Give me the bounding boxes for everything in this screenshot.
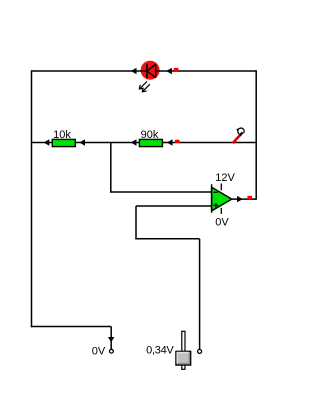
svg-text:12V: 12V	[215, 172, 235, 184]
terminal node (0,34V input)	[198, 349, 202, 353]
current arrow (down) above 0V terminal	[108, 337, 114, 342]
wire drop into input terminal	[199, 239, 201, 349]
wire op-amp output	[232, 198, 256, 200]
wire resistor row	[32, 142, 257, 144]
svg-text:90k: 90k	[141, 129, 159, 141]
op-amp U1 positive supply pin	[220, 184, 222, 191]
LED D1 body (red circle)	[141, 61, 160, 80]
current arrow right of R1	[79, 139, 85, 145]
wire junction drop from resistor row to op-amp inverting input	[110, 143, 112, 193]
LED D1 cathode bar	[146, 64, 148, 78]
current arrow on top rail (left of LED)	[131, 68, 137, 74]
wire drop into 0V terminal	[110, 327, 112, 350]
switch SW1 lever tip (black)	[240, 132, 243, 135]
LED D1 light emission arrows	[139, 81, 150, 91]
wire top rail right of LED	[156, 70, 257, 72]
current arrow on op-amp output	[237, 196, 243, 202]
switch SW1 lever (red, open)	[233, 135, 241, 143]
op-amp U1 minus sign	[214, 191, 218, 193]
wire top rail left of LED	[32, 70, 148, 72]
wire non-inverting path vertical	[135, 206, 137, 239]
current arrow on top rail (right of LED)	[166, 68, 172, 74]
resistor R1 10k body	[52, 139, 75, 146]
wire op-amp inverting input	[110, 191, 212, 193]
svg-text:0,34V: 0,34V	[146, 345, 174, 357]
op-amp U1 triangle	[212, 187, 232, 211]
current mark (red) on top rail	[174, 68, 179, 71]
wire bottom-left horizontal to 0V terminal	[31, 326, 111, 328]
op-amp U1 negative supply pin	[220, 208, 222, 214]
LED D1 triangle	[147, 64, 156, 78]
current arrow left of R1	[44, 139, 50, 145]
wire op-amp non-inverting input	[136, 205, 212, 207]
current arrow right of R2	[167, 139, 173, 145]
svg-text:0V: 0V	[215, 217, 229, 229]
wire non-inverting path horizontal	[135, 238, 199, 240]
wire right vertical rail	[255, 70, 257, 200]
potentiometer slider track	[182, 331, 185, 369]
current mark (red) on resistor row	[175, 140, 180, 143]
current mark (red) on op-amp output	[247, 196, 252, 199]
svg-text:10k: 10k	[53, 129, 71, 141]
potentiometer slider knob	[176, 351, 191, 365]
resistor R2 90k body	[139, 139, 162, 146]
switch SW1 handle curl	[237, 128, 245, 134]
terminal node (0V)	[110, 349, 114, 353]
op-amp U1 left edge line	[211, 184, 213, 213]
current arrow left of R2	[131, 139, 137, 145]
wire left vertical rail	[31, 70, 33, 327]
svg-text:0V: 0V	[92, 346, 106, 358]
op-amp U1 plus sign	[214, 203, 219, 208]
